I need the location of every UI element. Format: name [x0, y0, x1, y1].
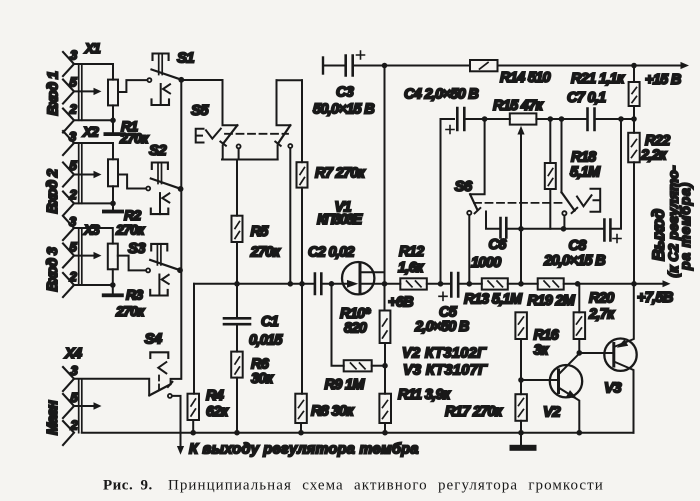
svg-text:R4: R4	[206, 388, 224, 404]
V1 source lead	[360, 283, 400, 285]
wire X3 pin5 with signal arrow	[74, 255, 94, 257]
wire R10 to R11	[384, 343, 386, 394]
svg-text:+15 В: +15 В	[645, 72, 681, 88]
svg-text:S5: S5	[191, 102, 209, 119]
S6 latch symbol mirrored E	[577, 195, 592, 206]
connector X1 pin 5 chevron	[63, 80, 74, 104]
switch S6 left pole	[467, 119, 500, 284]
wire X4 pin3 to S4	[74, 379, 149, 396]
wire S6 left contact down to signal line	[468, 215, 470, 284]
svg-text:Вход 2: Вход 2	[45, 169, 61, 213]
svg-text:R18: R18	[571, 150, 597, 166]
node S6 right contact stub	[561, 226, 567, 232]
svg-text:2,2к: 2,2к	[640, 148, 667, 164]
svg-text:20,0×15 В: 20,0×15 В	[543, 253, 605, 269]
capacitor C3	[346, 56, 353, 76]
wire X4 pin5 with signal arrow	[74, 405, 94, 407]
connector X4 pin 2 chevron	[63, 421, 74, 445]
svg-text:R13 5,1М: R13 5,1М	[464, 292, 523, 308]
connector X4 (double line)	[79, 379, 82, 433]
S5 left fixed contact	[237, 144, 241, 148]
resistor R4	[193, 284, 195, 394]
svg-text:К выходу регулятора тембра: К выходу регулятора тембра	[189, 442, 419, 458]
node S6 left pole on rail	[482, 116, 488, 122]
resistor R9 with leads	[332, 284, 344, 366]
node S5 right contact on signal line	[288, 281, 294, 287]
svg-text:S2: S2	[149, 142, 167, 159]
svg-text:X3: X3	[83, 223, 100, 238]
V2 base lead	[521, 379, 559, 381]
svg-text:C6: C6	[489, 237, 508, 253]
capacitor C1	[236, 284, 238, 319]
svg-text:R8 30к: R8 30к	[311, 404, 354, 420]
transistor V3 КТ3107Г	[604, 284, 636, 433]
wire S5 common bottom	[222, 159, 278, 161]
connector X3 pin 5 chevron	[63, 244, 74, 268]
wire R3 bottom	[112, 269, 114, 285]
svg-text:270к: 270к	[119, 130, 149, 146]
S4 lever	[149, 384, 170, 395]
svg-text:R15 47к: R15 47к	[493, 98, 544, 114]
node S1 pivot on bus	[178, 77, 184, 83]
resistor R20	[578, 284, 580, 313]
ground X1	[112, 120, 114, 132]
wire R15 wiper down to signal line	[520, 134, 522, 284]
svg-text:C8: C8	[569, 238, 588, 254]
node V1 gate / R9	[329, 281, 335, 287]
wire X3 pin3 to R3 top	[74, 228, 113, 244]
V2 base bar	[557, 370, 560, 393]
resistor R7	[301, 80, 303, 162]
connector X3 pin 3 chevron	[63, 216, 74, 240]
resistor R6	[231, 352, 243, 378]
potentiometer R2 body	[108, 159, 118, 186]
ground symbol	[520, 433, 522, 445]
svg-text:30к: 30к	[251, 371, 274, 387]
node junction R1/X1 pin2	[110, 118, 116, 124]
svg-text:R21 1,1к: R21 1,1к	[571, 71, 625, 87]
V2 emitter lead with arrow	[559, 388, 580, 433]
svg-text:Принципиальная схема активно: Принципиальная схема активного регулятор…	[168, 478, 604, 494]
svg-text:+6В: +6В	[388, 295, 413, 311]
V1 gate arrow	[347, 280, 358, 288]
S5 linkage dashed line	[225, 133, 288, 135]
node R21/R22 on rail	[631, 116, 637, 122]
resistor R18	[549, 119, 551, 163]
wire S6 moving contact to C6	[486, 212, 500, 229]
wire R2 bottom	[112, 186, 114, 203]
V1 drain lead	[360, 271, 385, 273]
wire R3 wiper tap to S3 contact	[118, 256, 146, 271]
svg-text:R14 510: R14 510	[500, 70, 551, 86]
switch S5 left pole	[220, 80, 240, 160]
wire X2 pin5 with signal arrow	[74, 174, 94, 176]
S4 button cap	[150, 352, 168, 358]
connector X2 pin 3 chevron	[63, 131, 74, 155]
wire X1 pin5 with signal arrow	[74, 90, 94, 92]
S4 latch detent	[158, 362, 166, 373]
connector X2 pin 2 chevron	[63, 192, 74, 216]
wire X1 pin2 to R1 bottom junction	[74, 119, 113, 121]
wire C4 left plate down to signal line	[440, 119, 442, 284]
S1 fixed contact	[147, 78, 151, 82]
switch S1	[147, 54, 181, 106]
svg-text:ра тембра): ра тембра)	[678, 182, 693, 271]
svg-text:R20: R20	[589, 291, 614, 307]
svg-text:X1: X1	[84, 41, 100, 56]
svg-text:3к: 3к	[534, 343, 549, 359]
capacitor C7	[588, 109, 595, 131]
+7,5V rail arrow	[663, 280, 671, 287]
wire bottom common bus	[82, 432, 634, 434]
potentiometer R1 body	[108, 80, 118, 106]
switch S5 right pole	[275, 80, 292, 284]
node R17 on bus	[518, 430, 524, 436]
svg-text:0,015: 0,015	[249, 333, 283, 349]
node R22 / V3 emitter on signal	[631, 281, 637, 287]
potentiometer R15	[510, 113, 537, 124]
S1 button cap	[153, 54, 169, 61]
wire R1 bottom	[112, 105, 114, 120]
V2 collector lead	[559, 354, 580, 375]
svg-text:S1: S1	[177, 50, 194, 67]
S1 bottom bracket	[152, 99, 170, 105]
svg-text:2,7к: 2,7к	[588, 307, 615, 323]
svg-text:2,0×50 В: 2,0×50 В	[414, 319, 469, 335]
switch S6 right pole	[562, 119, 578, 229]
node R9/R10/R11	[382, 363, 388, 369]
S5 latch symbol E	[196, 129, 204, 143]
connector X3 (double line)	[79, 228, 82, 285]
wire X2 pin2 to R2 bottom junction	[74, 202, 113, 204]
wire V3 base	[579, 352, 614, 354]
svg-text:S3: S3	[128, 240, 146, 257]
capacitor C2	[315, 274, 321, 295]
wire second rail (C4/R15/C7)	[441, 118, 635, 120]
svg-text:X4: X4	[64, 346, 82, 362]
node junction R3/X3 pin2	[110, 282, 116, 288]
svg-text:1000: 1000	[471, 255, 501, 271]
svg-text:R16: R16	[534, 328, 560, 344]
svg-text:S6: S6	[455, 178, 473, 195]
svg-text:V3 КТ3107Г: V3 КТ3107Г	[403, 363, 488, 379]
svg-text:C3: C3	[336, 85, 354, 101]
resistor R8	[295, 394, 307, 423]
resistor R21	[633, 66, 635, 83]
node R15 wiper / R16 on signal	[518, 281, 524, 287]
S5 right fixed contact	[288, 144, 292, 148]
wire S5 top jog to R7	[277, 79, 303, 81]
node V2 collector / V3 base	[577, 350, 583, 356]
wire left mixing bus S1-S4	[171, 80, 182, 384]
switch S2	[146, 163, 180, 215]
wire S1 node to S5 left pole	[181, 79, 222, 81]
resistor R10	[380, 311, 391, 344]
wire signal line left segment	[194, 283, 315, 285]
connector X3 pin 2 chevron	[63, 273, 74, 297]
wire X1 pin3 to R1 top	[74, 64, 113, 80]
wire +15V rail	[353, 65, 682, 67]
S1 stem double link	[159, 54, 163, 75]
capacitor C5	[451, 273, 458, 297]
node R5 on signal line	[234, 281, 240, 287]
svg-text:R7 270к: R7 270к	[315, 166, 366, 182]
resistor R12	[400, 278, 427, 289]
svg-text:Рис. 9.: Рис. 9.	[103, 478, 153, 494]
S4 lever foot tick	[168, 382, 173, 387]
connector X1 (double line)	[79, 64, 82, 120]
svg-text:R12: R12	[399, 244, 424, 260]
node junction R2/X2 pin2	[110, 201, 116, 207]
ground X2	[112, 203, 114, 209]
svg-text:C1: C1	[261, 314, 279, 330]
svg-text:X2: X2	[82, 125, 99, 140]
node S3 pivot on bus	[177, 267, 183, 273]
node V1 source junction	[382, 281, 388, 287]
connector X1 pin 3 chevron	[63, 52, 74, 76]
S5 left lever	[223, 125, 237, 143]
wire S5 right contact down to signal line	[289, 148, 291, 284]
node S2 pivot on bus	[178, 186, 184, 192]
resistor R11	[379, 394, 391, 423]
node S6 right pole on rail	[559, 116, 565, 122]
svg-text:КП303Е: КП303Е	[317, 212, 364, 228]
capacitor C8	[604, 220, 610, 241]
S4 fixed contact	[168, 394, 172, 398]
svg-text:C7 0,1: C7 0,1	[567, 90, 606, 106]
wire X2 pin3 to R2 top	[74, 143, 113, 159]
node R7 on signal line	[299, 281, 305, 287]
wire C6 to C8 (through R18 and S6 right contact)	[506, 228, 604, 230]
node V2 base junction	[518, 377, 524, 383]
S4 dashed link	[158, 376, 160, 394]
transistor V1 КП303Е	[342, 262, 400, 294]
resistor R17	[515, 394, 527, 421]
svg-text:R5: R5	[251, 224, 270, 240]
wire S4 contact to tone-control output arrow	[172, 396, 181, 447]
connector X4 pin 3 chevron	[63, 367, 74, 391]
svg-text:R3: R3	[126, 287, 143, 303]
V3 base bar	[612, 344, 615, 367]
resistor R14	[470, 60, 498, 71]
transistor V2 КТ3102Г	[521, 354, 582, 433]
svg-text:270к: 270к	[115, 303, 145, 319]
ground X3	[112, 285, 114, 293]
S6 linkage dashed line	[474, 202, 562, 204]
node R11 on bus	[382, 430, 388, 436]
wire R1 wiper tap to S1 contact	[118, 80, 147, 92]
svg-text:270к: 270к	[115, 222, 145, 238]
S1 lever	[152, 70, 182, 80]
svg-text:R11 3,9к: R11 3,9к	[398, 387, 451, 403]
svg-text:Вход 1: Вход 1	[46, 71, 62, 115]
svg-text:S4: S4	[145, 331, 163, 348]
svg-text:+7,5В: +7,5В	[637, 290, 673, 306]
svg-text:5,1М: 5,1М	[570, 165, 601, 181]
node R21 on rail	[631, 63, 637, 69]
node V1 drain line on rail	[382, 63, 388, 69]
svg-text:50,0×15 В: 50,0×15 В	[313, 102, 374, 118]
svg-text:820: 820	[344, 321, 367, 337]
node V2 emitter on bus	[577, 430, 583, 436]
svg-text:62к: 62к	[206, 404, 229, 420]
node R4 on bus	[190, 430, 196, 436]
svg-text:1,6к: 1,6к	[398, 260, 424, 276]
connector X2 (double line)	[79, 143, 82, 203]
svg-text:Магн: Магн	[45, 400, 61, 435]
wire R2 wiper tap to S2 contact	[118, 175, 146, 189]
svg-text:V2 КТ3102Г: V2 КТ3102Г	[402, 346, 487, 362]
resistor R5	[236, 160, 238, 216]
resistor R16	[515, 312, 527, 339]
svg-text:Вход 3: Вход 3	[45, 247, 61, 291]
wire X3 pin2 to R3 bottom junction	[74, 284, 113, 286]
node R18 on rail	[548, 116, 554, 122]
wire terminal to C3	[323, 65, 345, 67]
resistor R13	[482, 278, 508, 289]
svg-text:C2 0,02: C2 0,02	[308, 245, 355, 261]
resistor R19	[538, 278, 564, 289]
switch S4	[149, 352, 172, 398]
connector X2 pin 5 chevron	[63, 163, 74, 187]
node S6 contact line on signal	[467, 281, 473, 287]
node R15 wiper / C6	[518, 226, 524, 232]
capacitor C4	[457, 108, 464, 130]
resistor R22	[633, 119, 635, 133]
V3 emitter lead with arrow to +7,5V	[614, 284, 634, 347]
svg-text:R19 2М: R19 2М	[528, 293, 576, 309]
svg-text:270к: 270к	[250, 245, 281, 261]
capacitor C6	[501, 218, 507, 238]
svg-text:V2: V2	[543, 404, 561, 421]
connector X1 pin 2 chevron	[63, 109, 74, 133]
node C4 line on signal	[438, 281, 444, 287]
connector X4 pin 5 chevron	[63, 394, 74, 418]
potentiometer R3 body	[108, 244, 118, 270]
svg-text:V3: V3	[604, 380, 622, 397]
capacitor C3 input terminal	[322, 58, 324, 74]
switch S3	[146, 244, 180, 296]
wire V1 drain to +15V rail	[384, 66, 386, 311]
node R20 on signal	[575, 281, 581, 287]
svg-text:C4 2,0×50 В: C4 2,0×50 В	[404, 87, 478, 103]
node R8 on bus	[298, 430, 304, 436]
S1 latch detent	[163, 84, 170, 93]
svg-text:R17 270к: R17 270к	[445, 404, 503, 420]
V3 collector lead	[614, 362, 634, 433]
V1 channel bar	[359, 264, 362, 293]
wire C2 to V1 gate	[321, 283, 347, 285]
svg-text:R9 1М: R9 1М	[325, 377, 366, 393]
node R6 on bus	[234, 430, 240, 436]
node C8 on rail	[618, 116, 624, 122]
